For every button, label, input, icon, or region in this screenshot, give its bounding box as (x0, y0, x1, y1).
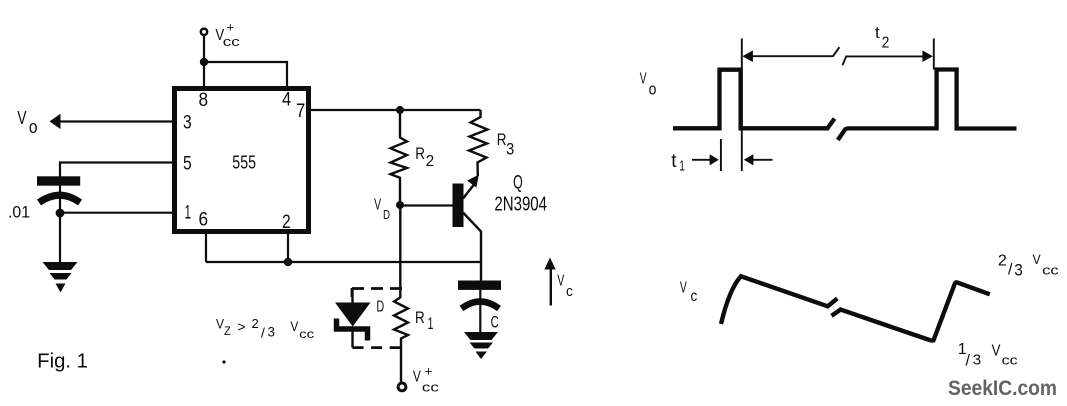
svg-text:V: V (1033, 251, 1042, 267)
svg-text:/: / (261, 324, 265, 340)
svg-text:cc: cc (299, 329, 314, 341)
svg-text:Fig. 1: Fig. 1 (37, 351, 88, 373)
svg-text:V: V (374, 197, 381, 214)
svg-text:V: V (17, 107, 27, 128)
svg-text:V: V (413, 369, 422, 386)
svg-text:2: 2 (252, 316, 259, 331)
svg-text:R: R (415, 144, 425, 163)
svg-text:.01: .01 (8, 203, 30, 222)
svg-text:Q: Q (513, 173, 523, 194)
svg-text:>: > (237, 319, 245, 335)
svg-text:2: 2 (998, 252, 1007, 269)
svg-text:+: + (227, 20, 235, 35)
svg-text:V: V (640, 71, 647, 88)
svg-text:R: R (415, 308, 425, 327)
svg-text:3: 3 (1014, 260, 1023, 279)
svg-text:Z: Z (224, 324, 231, 338)
svg-text:3: 3 (183, 113, 192, 134)
svg-text:3: 3 (506, 141, 514, 159)
svg-text:/: / (966, 353, 971, 370)
svg-text:V: V (992, 343, 1001, 360)
svg-text:cc: cc (422, 381, 439, 395)
svg-text:6: 6 (199, 210, 209, 231)
svg-text:1: 1 (679, 157, 685, 174)
svg-text:D: D (383, 208, 390, 222)
svg-text:o: o (29, 117, 38, 137)
svg-text:V: V (557, 273, 564, 290)
svg-text:555: 555 (232, 152, 256, 172)
svg-text:2: 2 (282, 212, 291, 233)
svg-text:t: t (671, 151, 677, 172)
svg-text:5: 5 (183, 154, 192, 175)
svg-text:D: D (376, 298, 384, 315)
svg-text:8: 8 (199, 90, 209, 111)
svg-text:o: o (649, 80, 657, 99)
svg-text:+: + (425, 363, 433, 378)
svg-text:1: 1 (428, 314, 434, 333)
svg-text:cc: cc (1042, 264, 1059, 278)
svg-text:cc: cc (1002, 353, 1018, 367)
svg-text:R: R (497, 130, 507, 149)
svg-text:4: 4 (282, 90, 292, 111)
svg-text:3: 3 (268, 325, 276, 340)
svg-text:V: V (290, 318, 299, 334)
svg-text:2: 2 (882, 34, 890, 51)
svg-text:V: V (680, 280, 687, 297)
svg-text:3: 3 (973, 351, 981, 368)
svg-text:2N3904: 2N3904 (494, 194, 547, 216)
svg-text:/: / (1008, 262, 1013, 279)
svg-text:C: C (491, 312, 499, 331)
svg-text:t: t (875, 23, 880, 42)
svg-text:SeekIC.com: SeekIC.com (948, 377, 1057, 400)
svg-text:c: c (566, 284, 573, 300)
svg-text:c: c (691, 288, 698, 305)
svg-text:2: 2 (426, 153, 434, 170)
svg-text:1: 1 (185, 203, 192, 224)
svg-text:7: 7 (296, 101, 305, 122)
svg-text:cc: cc (223, 35, 240, 49)
